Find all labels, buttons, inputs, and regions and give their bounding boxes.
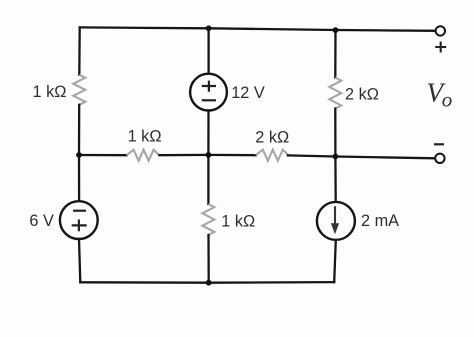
wire: left branch from resistor to 6V source	[78, 105, 80, 201]
node: middle right junction	[333, 154, 339, 160]
node: center junction	[206, 152, 212, 158]
wire: middle branch from top rail to 12V source	[207, 28, 209, 73]
svg-text:o: o	[442, 87, 453, 111]
svg-text:6 V: 6 V	[29, 212, 54, 230]
wire: right branch bottom segment	[334, 240, 336, 282]
terminal: + output (open circle)	[436, 26, 445, 35]
svg-text:12 V: 12 V	[231, 84, 265, 102]
svg-text:2 kΩ: 2 kΩ	[255, 129, 289, 147]
wire: right branch from top rail to 2k resistor	[334, 30, 337, 78]
node: middle left junction	[76, 152, 82, 158]
wire: middle branch bottom segment	[207, 235, 209, 283]
wire: top rail from top-left corner to + output terminal	[80, 27, 436, 30]
minus sign inside 12V source	[202, 99, 216, 101]
resistor 1 kOhm (left vertical)	[73, 75, 85, 105]
wire: bottom rail	[80, 281, 334, 284]
voltage source V2 12V (circle, plus on top, minus below)	[190, 74, 227, 111]
wire: middle rail right part to - output terminal	[288, 155, 435, 158]
node: bottom middle junction	[206, 280, 212, 286]
resistor 1 kOhm (middle horizontal left)	[127, 150, 160, 161]
resistor 2 kOhm (middle horizontal right)	[256, 150, 289, 161]
svg-text:1 kΩ: 1 kΩ	[128, 128, 162, 146]
current source I1 2mA (circle with downward arrow)	[317, 202, 355, 240]
wire: middle rail center part	[159, 154, 255, 157]
voltage source V1 6V (circle, minus on top, plus below)	[60, 201, 98, 239]
terminal: - output (open circle)	[435, 154, 444, 163]
node: top middle junction	[206, 25, 212, 31]
wire: left branch upper segment	[78, 27, 81, 74]
plus sign of output port	[435, 42, 446, 53]
arrow inside 2mA source pointing down	[334, 206, 336, 224]
plus sign inside 12V source	[202, 81, 216, 92]
svg-text:1 kΩ: 1 kΩ	[33, 83, 67, 101]
resistor 1 kOhm (middle vertical, bottom)	[202, 204, 214, 235]
wire: left branch bottom segment	[79, 239, 80, 282]
plus sign inside 6V source	[72, 220, 87, 232]
node: top right junction	[333, 27, 339, 33]
minus sign inside 6V source	[73, 210, 86, 212]
minus sign of output port	[434, 143, 444, 145]
wire: right branch from resistor to node and 2mA source	[334, 109, 337, 202]
svg-text:2 mA: 2 mA	[361, 212, 399, 230]
svg-text:2 kΩ: 2 kΩ	[345, 86, 379, 104]
wire: middle rail left part	[79, 154, 127, 156]
wire: middle branch from 12V source to center node and down to resistor	[207, 111, 209, 205]
svg-text:1 kΩ: 1 kΩ	[221, 213, 255, 231]
resistor 2 kOhm (right vertical)	[329, 78, 341, 109]
